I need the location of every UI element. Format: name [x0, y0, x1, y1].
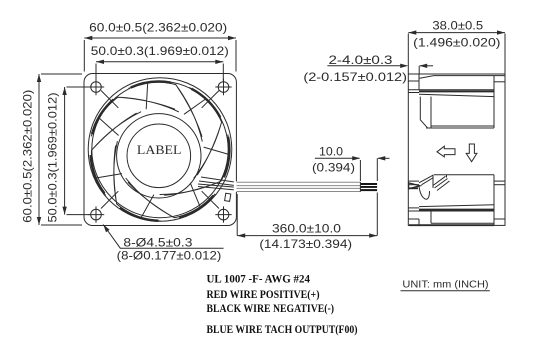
side flange notch TL	[418, 74, 420, 81]
fan blades	[91, 82, 229, 221]
side bottom block top edge	[434, 174, 494, 176]
side bottom band slant	[419, 205, 494, 207]
svg-text:360.0±10.0: 360.0±10.0	[272, 221, 341, 235]
side wire exit wedge	[409, 183, 420, 189]
side bottom inner	[430, 212, 432, 224]
svg-text:2-4.0±0.3: 2-4.0±0.3	[329, 53, 394, 67]
fan hub outer circle	[117, 114, 201, 198]
side bottom band lower	[408, 210, 494, 212]
fan hub label circle	[127, 124, 191, 188]
side flange notch BR	[494, 218, 505, 220]
stripped wire ends	[361, 183, 377, 185]
svg-text:60.0±0.5(2.362±0.020): 60.0±0.5(2.362±0.020)	[21, 90, 35, 223]
svg-text:BLUE WIRE TACH OUTPUT(F00): BLUE WIRE TACH OUTPUT(F00)	[207, 324, 358, 336]
unit underline	[401, 290, 490, 292]
blade tip shading	[91, 82, 230, 221]
ext line 360 left	[236, 194, 238, 236]
svg-text:RED WIRE POSITIVE(+): RED WIRE POSITIVE(+)	[207, 289, 320, 301]
wire bundle lines	[237, 181, 361, 183]
mounting holes 8-4.5	[91, 82, 102, 93]
side top block right edge	[493, 76, 495, 128]
side clip chamfer	[419, 175, 434, 183]
side bottom band upper left	[408, 207, 419, 209]
svg-text:LABEL: LABEL	[137, 143, 182, 157]
dim line 60 top	[84, 37, 236, 39]
svg-text:UNIT: mm (INCH): UNIT: mm (INCH)	[402, 279, 488, 291]
side top band lower left	[408, 92, 419, 94]
rotation arrow left	[437, 146, 455, 157]
ext lines 60 left	[41, 73, 82, 75]
svg-text:60.0±0.5(2.362±0.020): 60.0±0.5(2.362±0.020)	[89, 20, 227, 34]
arrow 2-4.0 right	[420, 65, 433, 67]
side bottom band thick	[419, 209, 494, 211]
arrow 10 right	[378, 157, 390, 159]
dim line 50 top	[96, 61, 223, 63]
side wire hatch	[433, 175, 450, 191]
insulation end	[359, 182, 361, 192]
fan internal lead wires	[198, 177, 236, 190]
dim line 60 left	[38, 74, 40, 225]
svg-text:50.0±0.3(1.969±0.012): 50.0±0.3(1.969±0.012)	[46, 92, 60, 222]
side top block left edge	[418, 78, 420, 90]
side top hub pentagon	[420, 97, 431, 128]
side top block top edge	[419, 76, 505, 79]
ext lines 50 left	[67, 86, 90, 88]
fan venturi inner circle	[92, 81, 228, 217]
tick 2-4.0	[418, 66, 420, 74]
side wire exit dark line	[409, 187, 418, 189]
svg-text:(8-Ø0.177±0.012): (8-Ø0.177±0.012)	[117, 248, 222, 262]
svg-text:UL 1007 -F- AWG #24: UL 1007 -F- AWG #24	[207, 273, 311, 285]
ext line 10 left	[359, 160, 361, 181]
side clip hook	[419, 186, 430, 199]
leader 8-dia4.5	[103, 225, 223, 249]
svg-text:10.0: 10.0	[319, 144, 343, 158]
side bottom block right edge	[493, 175, 495, 226]
side top inner bottom line	[431, 125, 494, 127]
svg-text:50.0±0.3(1.969±0.012): 50.0±0.3(1.969±0.012)	[91, 44, 229, 58]
svg-text:38.0±0.5: 38.0±0.5	[432, 19, 483, 33]
side wire lines left strip	[408, 180, 419, 182]
fan front view frame	[84, 74, 236, 226]
side flange notch BL	[418, 219, 420, 225]
svg-text:8-Ø4.5±0.3: 8-Ø4.5±0.3	[123, 235, 192, 249]
side top block bottom	[426, 127, 494, 129]
side flange notch TR	[494, 81, 505, 83]
svg-text:(14.173±0.394): (14.173±0.394)	[259, 237, 352, 251]
frame wire notch	[234, 181, 238, 192]
airflow arrow down	[466, 144, 477, 162]
leader 2-4.0	[327, 65, 406, 67]
ext lines 38	[407, 34, 409, 74]
wire retention tab	[225, 193, 231, 201]
dim line 38	[408, 32, 505, 34]
ext lines 60 top	[83, 40, 85, 72]
ext line 10 right	[376, 158, 378, 181]
svg-text:(0.394): (0.394)	[312, 160, 355, 174]
side wire lines right strip	[494, 180, 505, 182]
dim line 50 left	[64, 87, 66, 215]
fan venturi outer circle	[88, 78, 232, 222]
side top band slant	[419, 94, 494, 96]
dim line 10 left part	[315, 157, 360, 159]
side top band thick	[419, 90, 494, 92]
svg-text:BLACK WIRE NEGATIVE(-): BLACK WIRE NEGATIVE(-)	[207, 303, 335, 315]
svg-text:(2-0.157±0.012): (2-0.157±0.012)	[303, 70, 407, 84]
side view outline	[408, 74, 505, 225]
ext lines 50 top	[95, 64, 97, 82]
side top band upper	[408, 89, 494, 91]
corner ribs	[101, 91, 219, 209]
dim line 360	[237, 235, 377, 237]
svg-text:(1.496±0.020): (1.496±0.020)	[413, 35, 500, 49]
side bottom edge thick	[409, 224, 494, 226]
